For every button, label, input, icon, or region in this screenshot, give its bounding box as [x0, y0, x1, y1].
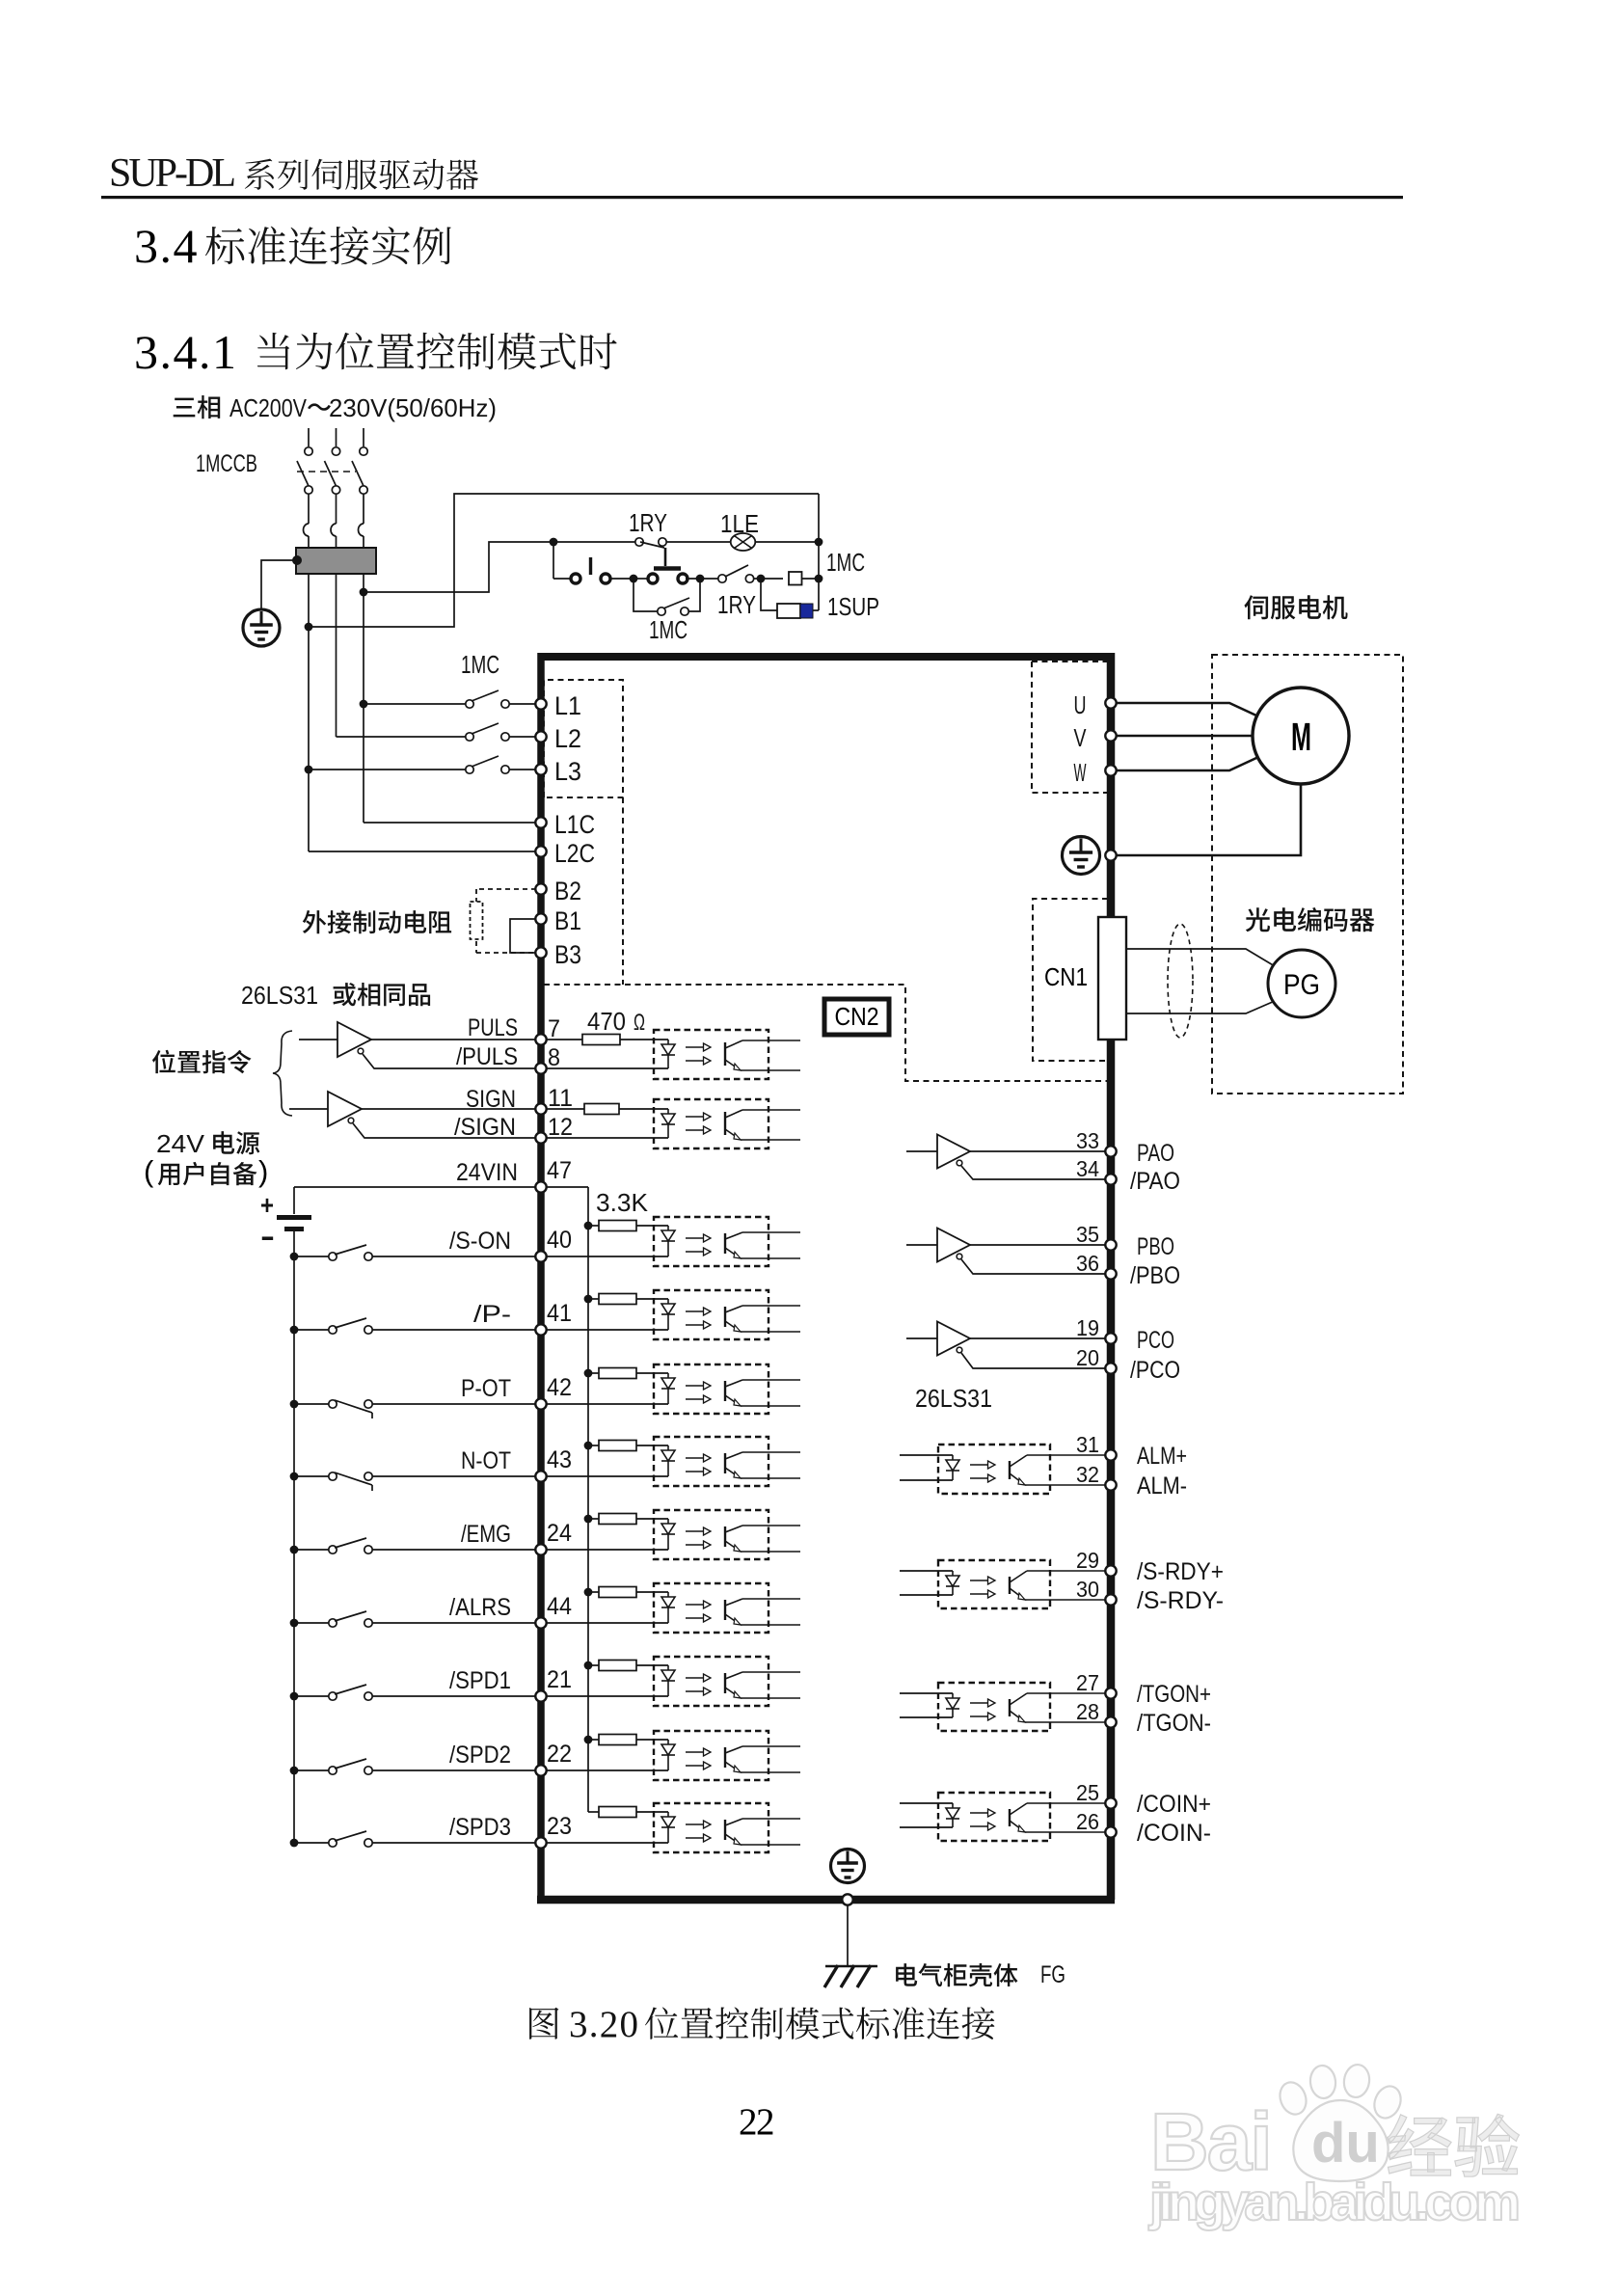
dashed CN2 region boundary: [544, 985, 1109, 1081]
chassis ground: [825, 1965, 877, 1968]
connector label CN2: [824, 999, 889, 1035]
optocoupler PULS: [654, 1030, 769, 1079]
svg-text:1MC: 1MC: [826, 548, 865, 577]
line driver PBO: [906, 1244, 937, 1246]
terminal pin 28: [1105, 1716, 1116, 1727]
svg-text:V: V: [1074, 723, 1087, 752]
wire /PULS: [363, 1054, 536, 1068]
terminal pin 23: [535, 1837, 546, 1848]
wire PAO: [970, 1150, 1106, 1152]
optocoupler /ALRS: [654, 1583, 769, 1633]
pushbutton stop (NC): [634, 578, 647, 580]
ground symbol (mains PE): [243, 609, 280, 646]
svg-text:27: 27: [1076, 1670, 1099, 1695]
terminal B1: [535, 913, 546, 924]
optocoupler output /TGON+: [938, 1683, 1050, 1731]
terminal pin 22: [535, 1765, 546, 1775]
dashed box U V W group: [1032, 662, 1111, 793]
line driver SIGN: [289, 1108, 328, 1110]
terminal pin 30: [1105, 1594, 1116, 1605]
optocoupler output /S-RDY+: [938, 1560, 1050, 1608]
svg-text:/P-: /P-: [473, 1301, 511, 1328]
terminal pin 43: [535, 1471, 546, 1481]
terminal pin 24: [535, 1544, 546, 1554]
svg-text:du: du: [1311, 2112, 1380, 2174]
label three-phase supply: [174, 395, 221, 419]
wire 24VIN: [294, 1186, 536, 1188]
servo driver outline: [541, 653, 1111, 661]
wire relay right riser: [818, 494, 820, 610]
wire motor ground: [1117, 784, 1301, 855]
switch input P-OT: [290, 1400, 299, 1409]
wire PBO: [970, 1244, 1106, 1246]
contact 1MC pole L2: [337, 736, 467, 738]
ground symbol FG: [831, 1850, 865, 1883]
optocoupler /SPD2: [654, 1731, 769, 1780]
svg-text:25: 25: [1076, 1780, 1099, 1805]
optocoupler /SPD1: [654, 1657, 769, 1706]
ground symbol (motor frame): [1063, 837, 1100, 875]
surge suppressor 1SUP: [761, 579, 777, 610]
svg-text:32: 32: [1076, 1462, 1099, 1487]
breaker 1MCCB: [305, 447, 312, 455]
svg-text:/PAO: /PAO: [1130, 1168, 1180, 1195]
connector CN1 body: [1098, 917, 1126, 1040]
svg-text:N-OT: N-OT: [461, 1447, 511, 1474]
wire /ALRS: [372, 1622, 536, 1624]
terminal L2C: [535, 846, 546, 856]
svg-text:(: (: [144, 1154, 154, 1188]
svg-text:1MC: 1MC: [649, 615, 688, 644]
resistor 3.3K /SPD3: [588, 1811, 599, 1813]
resistor 3.3K /ALRS: [584, 1588, 593, 1597]
wire N-OT: [372, 1475, 536, 1477]
contact 1MC pole L1: [364, 703, 466, 705]
terminal L2: [535, 731, 546, 742]
wire /EMG: [372, 1549, 536, 1551]
switch input N-OT: [290, 1472, 299, 1481]
dashed divider below L3: [622, 797, 624, 985]
resistor 3.3K N-OT: [584, 1442, 593, 1450]
svg-text:26LS31: 26LS31: [915, 1384, 992, 1413]
svg-text:36: 36: [1076, 1251, 1099, 1276]
svg-text:ALM+: ALM+: [1137, 1443, 1187, 1470]
terminal pin 8: [535, 1063, 546, 1073]
wire phase3 down-feed: [363, 574, 364, 823]
wire /SPD1: [372, 1695, 536, 1697]
terminal pin 12: [535, 1132, 546, 1143]
motor M: [1253, 688, 1349, 784]
terminal FG: [842, 1894, 852, 1904]
svg-text:/COIN+: /COIN+: [1137, 1791, 1211, 1818]
optocoupler P-OT: [654, 1364, 769, 1414]
svg-text:22: 22: [739, 2101, 773, 2143]
resistor 3.3K /S-ON: [584, 1222, 593, 1230]
terminal pin 32: [1105, 1479, 1116, 1490]
svg-text:470: 470: [587, 1007, 626, 1036]
svg-text:41: 41: [547, 1300, 572, 1327]
switch input /EMG: [290, 1546, 299, 1554]
svg-text:SIGN: SIGN: [466, 1086, 516, 1113]
ground wire from contactor: [292, 555, 302, 565]
contact 1MC pole L3: [309, 769, 466, 770]
svg-text:7: 7: [548, 1015, 560, 1042]
svg-text:L2: L2: [554, 724, 581, 753]
wire /SPD3: [372, 1842, 536, 1844]
wire P-OT: [372, 1403, 536, 1405]
svg-text:40: 40: [547, 1227, 572, 1254]
svg-text:23: 23: [547, 1813, 572, 1840]
svg-text:/SPD1: /SPD1: [449, 1667, 511, 1694]
wire /S-ON: [372, 1256, 536, 1257]
terminal pin 25: [1105, 1797, 1116, 1808]
svg-text:3.4.1: 3.4.1: [134, 325, 238, 379]
wire /PAO: [961, 1166, 1106, 1179]
svg-text:PCO: PCO: [1137, 1327, 1174, 1354]
svg-text:ALM-: ALM-: [1137, 1472, 1187, 1499]
svg-text:FG: FG: [1040, 1961, 1065, 1988]
svg-text:/COIN-: /COIN-: [1137, 1820, 1211, 1847]
svg-text:P-OT: P-OT: [461, 1375, 511, 1402]
svg-text:34: 34: [1076, 1156, 1099, 1181]
svg-text:CN1: CN1: [1044, 962, 1088, 991]
svg-text:31: 31: [1076, 1432, 1099, 1457]
svg-text:1MCCB: 1MCCB: [196, 450, 257, 477]
svg-text:22: 22: [547, 1741, 572, 1768]
svg-text:): ): [258, 1154, 268, 1188]
optocoupler /P-: [654, 1290, 769, 1339]
svg-text:20: 20: [1076, 1345, 1099, 1370]
terminal L1: [535, 698, 546, 709]
wire W: [1116, 758, 1256, 770]
header rule: [101, 196, 1403, 199]
wire L1C: [364, 822, 536, 824]
terminal pin 11: [535, 1103, 546, 1114]
label servo motor: [1244, 595, 1347, 619]
svg-text:/S-ON: /S-ON: [449, 1228, 511, 1255]
label cabinet shell / FG: [896, 1963, 1017, 1986]
svg-text:PAO: PAO: [1137, 1140, 1174, 1167]
coil 1MC: [789, 572, 802, 585]
switch input /ALRS: [290, 1619, 299, 1628]
terminal B2: [535, 883, 546, 894]
svg-text:19: 19: [1076, 1315, 1099, 1340]
optocoupler /EMG: [654, 1510, 769, 1559]
svg-text:B1: B1: [554, 906, 581, 935]
wire U: [1116, 703, 1256, 716]
optocoupler /S-ON: [654, 1217, 769, 1266]
switch input /SPD3: [290, 1839, 299, 1848]
svg-text:1RY: 1RY: [717, 590, 756, 619]
resistor 3.3K P-OT: [584, 1369, 593, 1378]
relay contact 1RY: [557, 541, 636, 543]
svg-text:/S-RDY+: /S-RDY+: [1137, 1558, 1224, 1585]
svg-text:AC200V: AC200V: [229, 393, 308, 422]
svg-text:29: 29: [1076, 1548, 1099, 1573]
wire /SIGN: [353, 1123, 536, 1138]
terminal pin 26: [1105, 1826, 1116, 1837]
label position command: [152, 1050, 252, 1074]
battery 24V: [293, 1187, 295, 1214]
svg-text:44: 44: [547, 1593, 572, 1620]
svg-text:8: 8: [548, 1044, 560, 1071]
wire FG: [847, 1905, 849, 1967]
caption figure 3.20: [529, 2008, 558, 2039]
terminal pin 33: [1105, 1146, 1116, 1156]
terminal pin 42: [535, 1398, 546, 1409]
svg-text:28: 28: [1076, 1699, 1099, 1724]
wire encoder bottom: [1126, 1001, 1275, 1013]
pushbutton start (NO): [571, 574, 580, 583]
optocoupler SIGN: [654, 1099, 769, 1148]
svg-text:M: M: [1291, 715, 1311, 759]
label photoelectric encoder: [1246, 907, 1375, 932]
svg-text:3.20: 3.20: [569, 2004, 638, 2045]
resistor 3.3K /SPD1: [584, 1661, 593, 1670]
wire battery negative rail: [293, 1231, 295, 1843]
contact interlock: [686, 578, 719, 580]
svg-text:CN2: CN2: [835, 1002, 879, 1031]
svg-text:L2C: L2C: [554, 839, 595, 868]
optocoupler output ALM+: [938, 1445, 1050, 1494]
svg-text:+: +: [260, 1190, 274, 1220]
dashed box servo motor + encoder: [1212, 655, 1403, 1094]
svg-text:47: 47: [547, 1157, 572, 1184]
svg-text:3.4: 3.4: [134, 219, 199, 273]
svg-text:/ALRS: /ALRS: [449, 1594, 511, 1621]
svg-text:/EMG: /EMG: [461, 1521, 511, 1548]
wire encoder top: [1126, 949, 1275, 966]
svg-text:L1: L1: [554, 691, 581, 720]
terminal pin 44: [535, 1617, 546, 1628]
encoder PG: [1268, 950, 1335, 1017]
braking resistor (optional, dashed): [476, 888, 536, 890]
wire PULS: [371, 1039, 536, 1040]
svg-text:W: W: [1074, 758, 1087, 787]
svg-text:/PBO: /PBO: [1130, 1262, 1180, 1289]
svg-text:-: -: [260, 1221, 275, 1253]
terminal L1C: [535, 817, 546, 827]
svg-text:/SIGN: /SIGN: [454, 1114, 516, 1141]
wire row1 to row2: [553, 542, 554, 579]
terminal pin 35: [1105, 1239, 1116, 1250]
svg-text:/S-RDY-: /S-RDY-: [1137, 1587, 1224, 1614]
terminal pin 41: [535, 1324, 546, 1335]
brace: [273, 1031, 292, 1116]
switch input /SPD1: [290, 1692, 299, 1701]
lamp 1LE: [666, 541, 731, 543]
svg-text:PBO: PBO: [1137, 1233, 1174, 1260]
resistor 3.3K /EMG: [584, 1515, 593, 1524]
svg-text:jingyan.baidu.com: jingyan.baidu.com: [1148, 2174, 1521, 2231]
label external braking resistor: [303, 910, 451, 933]
svg-text:21: 21: [547, 1666, 572, 1693]
wire /SPD2: [372, 1769, 536, 1771]
optocoupler /SPD3: [654, 1803, 769, 1852]
svg-text:/TGON-: /TGON-: [1137, 1710, 1211, 1737]
wire /PBO: [961, 1259, 1106, 1274]
switch input /P-: [290, 1326, 299, 1335]
svg-text:L1C: L1C: [554, 810, 595, 839]
svg-text:35: 35: [1076, 1222, 1099, 1247]
svg-text:1LE: 1LE: [720, 509, 759, 538]
wire three-phase stubs: [308, 428, 310, 446]
optocoupler N-OT: [654, 1437, 769, 1486]
svg-text:24: 24: [547, 1520, 572, 1547]
svg-text:26LS31: 26LS31: [241, 981, 318, 1010]
terminal pin 36: [1105, 1268, 1116, 1279]
wire phase2 down-feed: [336, 574, 337, 737]
dashed box L1-L3 group: [544, 680, 623, 797]
svg-text:230V(50/60Hz): 230V(50/60Hz): [329, 393, 497, 422]
cable shield: [1168, 924, 1193, 1038]
optocoupler output /COIN+: [938, 1793, 1050, 1841]
svg-text:SUP-DL: SUP-DL: [109, 151, 236, 196]
svg-text:33: 33: [1076, 1128, 1099, 1153]
svg-text:/SPD2: /SPD2: [449, 1742, 511, 1769]
wire relay feed A: [364, 542, 553, 592]
svg-text:3.3K: 3.3K: [596, 1188, 649, 1217]
watermark baidu logo: [1150, 2063, 1405, 2187]
terminal pin 27: [1105, 1688, 1116, 1698]
wire V: [1116, 735, 1254, 738]
svg-text:U: U: [1074, 690, 1087, 719]
terminal pin 47: [535, 1181, 546, 1192]
connector CN1 dashed box: [1033, 899, 1108, 1061]
switch input /S-ON: [290, 1253, 299, 1261]
svg-text:26: 26: [1076, 1809, 1099, 1834]
line driver PULS: [299, 1039, 337, 1040]
svg-text:PG: PG: [1283, 969, 1320, 1001]
terminal pin 40: [535, 1251, 546, 1261]
terminal pin 7: [535, 1034, 546, 1044]
jumper B1-B3: [510, 919, 536, 953]
svg-text:/TGON+: /TGON+: [1137, 1681, 1211, 1708]
wire SIGN: [362, 1108, 536, 1110]
switch input /SPD2: [290, 1767, 299, 1775]
resistor 3.3K /P-: [584, 1295, 593, 1304]
svg-text:B2: B2: [554, 877, 581, 905]
terminal pin 20: [1105, 1363, 1116, 1373]
svg-text:Ω: Ω: [634, 1010, 645, 1036]
terminal pin 34: [1105, 1174, 1116, 1184]
terminal pin 21: [535, 1690, 546, 1701]
wire /PCO: [961, 1353, 1106, 1368]
terminal pin 19: [1105, 1333, 1116, 1343]
line driver PAO: [906, 1150, 937, 1152]
svg-text:11: 11: [548, 1085, 573, 1112]
svg-text:24VIN: 24VIN: [456, 1159, 518, 1186]
svg-text:PULS: PULS: [468, 1014, 518, 1041]
svg-text:43: 43: [547, 1446, 572, 1473]
wire PCO: [970, 1337, 1106, 1339]
contact 1MC holding (sub loop): [634, 579, 658, 611]
terminal pin 29: [1105, 1565, 1116, 1576]
terminal L3: [535, 764, 546, 774]
svg-text:30: 30: [1076, 1577, 1099, 1602]
svg-text:1RY: 1RY: [629, 508, 667, 537]
svg-text:/PULS: /PULS: [456, 1043, 518, 1070]
resistor SIGN: [546, 1108, 584, 1110]
line driver PCO: [906, 1337, 937, 1339]
wire /P-: [372, 1329, 536, 1331]
svg-text:1SUP: 1SUP: [827, 592, 879, 621]
resistor 3.3K /SPD2: [584, 1736, 593, 1744]
svg-text:1MC: 1MC: [461, 650, 499, 679]
terminal ground: [1105, 850, 1116, 860]
svg-text:24V: 24V: [156, 1129, 205, 1158]
svg-text:/SPD3: /SPD3: [449, 1814, 511, 1841]
svg-text:12: 12: [548, 1114, 573, 1141]
wire relay feed B: [309, 494, 819, 627]
terminal B3: [535, 947, 546, 958]
wire L2C: [309, 851, 536, 852]
contactor block (gray): [296, 548, 376, 574]
wire phase1 down-feed: [308, 574, 310, 851]
svg-text:B3: B3: [554, 940, 581, 969]
wire 24VIN internal rail (3.3K feed): [546, 1186, 588, 1188]
svg-text:42: 42: [547, 1374, 572, 1401]
svg-text:/PCO: /PCO: [1130, 1357, 1180, 1384]
wire breaker to contactor with thermal elements: [308, 494, 310, 524]
terminal pin 31: [1105, 1449, 1116, 1460]
svg-text:L3: L3: [554, 757, 581, 786]
